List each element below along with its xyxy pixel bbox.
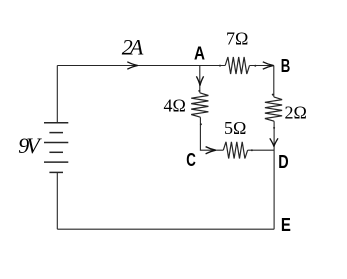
svg-text:B: B xyxy=(281,56,291,76)
pin dot R2 top terminal xyxy=(198,90,200,92)
wire left: battery bottom plate down to bottom corner xyxy=(56,172,58,229)
wire right: node B down to R3 2ohm xyxy=(273,66,275,97)
pin dot R2 bottom terminal xyxy=(200,123,202,125)
current arrow pointing right into node B xyxy=(263,62,274,69)
battery B1 9V xyxy=(44,123,68,173)
svg-text:4Ω: 4Ω xyxy=(164,96,186,116)
svg-text:7Ω: 7Ω xyxy=(226,29,248,49)
svg-text:9V: 9V xyxy=(18,133,42,158)
svg-text:2A: 2A xyxy=(122,34,144,59)
svg-text:A: A xyxy=(194,44,205,64)
battery plate short 3 xyxy=(49,171,63,173)
current arrow pointing down above node D xyxy=(270,138,278,146)
battery plate long 1 xyxy=(44,122,68,124)
pin dot R3 bottom terminal xyxy=(273,127,275,129)
current arrow pointing down on A-C branch xyxy=(196,76,203,85)
svg-text:5Ω: 5Ω xyxy=(224,118,246,138)
pin dot R4 right terminal xyxy=(251,149,253,151)
battery plate long 3 xyxy=(44,161,68,163)
resistor R1 7ohm zigzag (A-B) xyxy=(225,57,249,74)
wire left: top corner down to battery top plate xyxy=(56,66,58,123)
wire: R2 lead down to node C corner then right xyxy=(200,117,223,150)
resistor R3 2ohm zigzag (B-D) xyxy=(265,97,282,121)
wire right: R3 lead down through node D to node E xyxy=(273,121,275,229)
battery plate short 1 xyxy=(49,132,63,134)
pin dot R1 right terminal xyxy=(254,65,256,67)
svg-text:E: E xyxy=(281,215,291,235)
wire bottom: from battery side to node E xyxy=(57,228,274,230)
wire top: battery positive to node A to R1 xyxy=(57,65,225,67)
resistor R4 5ohm zigzag (C-D) xyxy=(223,142,247,159)
wire: R4 5ohm to node D junction xyxy=(248,149,275,151)
current arrow 2A pointing right on top wire xyxy=(127,62,138,69)
wire top: R1 to node B corner xyxy=(250,65,274,67)
svg-text:D: D xyxy=(278,152,288,172)
current arrow pointing right after node C xyxy=(206,147,216,154)
pin dot R3 top terminal xyxy=(272,94,274,96)
battery plate short 2 xyxy=(49,151,63,153)
battery plate long 2 xyxy=(44,142,68,144)
resistor R2 4ohm zigzag (A-C) xyxy=(191,93,208,117)
pin dot R1 left terminal xyxy=(219,65,221,67)
svg-text:2Ω: 2Ω xyxy=(285,102,307,122)
svg-text:C: C xyxy=(186,150,196,170)
wire: node A down to R2 4ohm xyxy=(199,66,201,93)
